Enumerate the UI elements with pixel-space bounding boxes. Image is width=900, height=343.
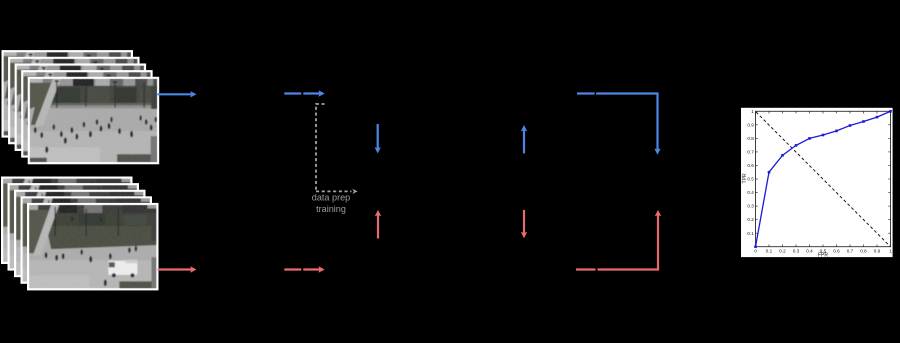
svg-text:FPR: FPR — [818, 253, 828, 259]
svg-text:0.5: 0.5 — [747, 177, 754, 182]
svg-text:TPR: TPR — [742, 173, 748, 183]
svg-text:1: 1 — [751, 109, 754, 114]
svg-text:0.2: 0.2 — [779, 248, 786, 253]
svg-text:0.1: 0.1 — [766, 248, 773, 253]
svg-text:0.6: 0.6 — [833, 248, 840, 253]
svg-text:0.3: 0.3 — [793, 248, 800, 253]
svg-text:0.1: 0.1 — [747, 231, 754, 236]
svg-text:training: training — [316, 204, 346, 214]
svg-text:1: 1 — [889, 248, 892, 253]
svg-text:0.7: 0.7 — [747, 150, 754, 155]
svg-text:0.8: 0.8 — [860, 248, 867, 253]
svg-text:0.3: 0.3 — [747, 204, 754, 209]
svg-text:0.7: 0.7 — [847, 248, 854, 253]
svg-text:0.4: 0.4 — [806, 248, 813, 253]
svg-text:0.6: 0.6 — [747, 163, 754, 168]
svg-text:0.9: 0.9 — [747, 122, 754, 127]
svg-text:0.9: 0.9 — [874, 248, 881, 253]
svg-text:data prep: data prep — [312, 193, 350, 203]
svg-text:0: 0 — [754, 248, 757, 253]
svg-text:0.8: 0.8 — [747, 136, 754, 141]
svg-text:0.2: 0.2 — [747, 217, 754, 222]
svg-text:0.4: 0.4 — [747, 190, 754, 195]
